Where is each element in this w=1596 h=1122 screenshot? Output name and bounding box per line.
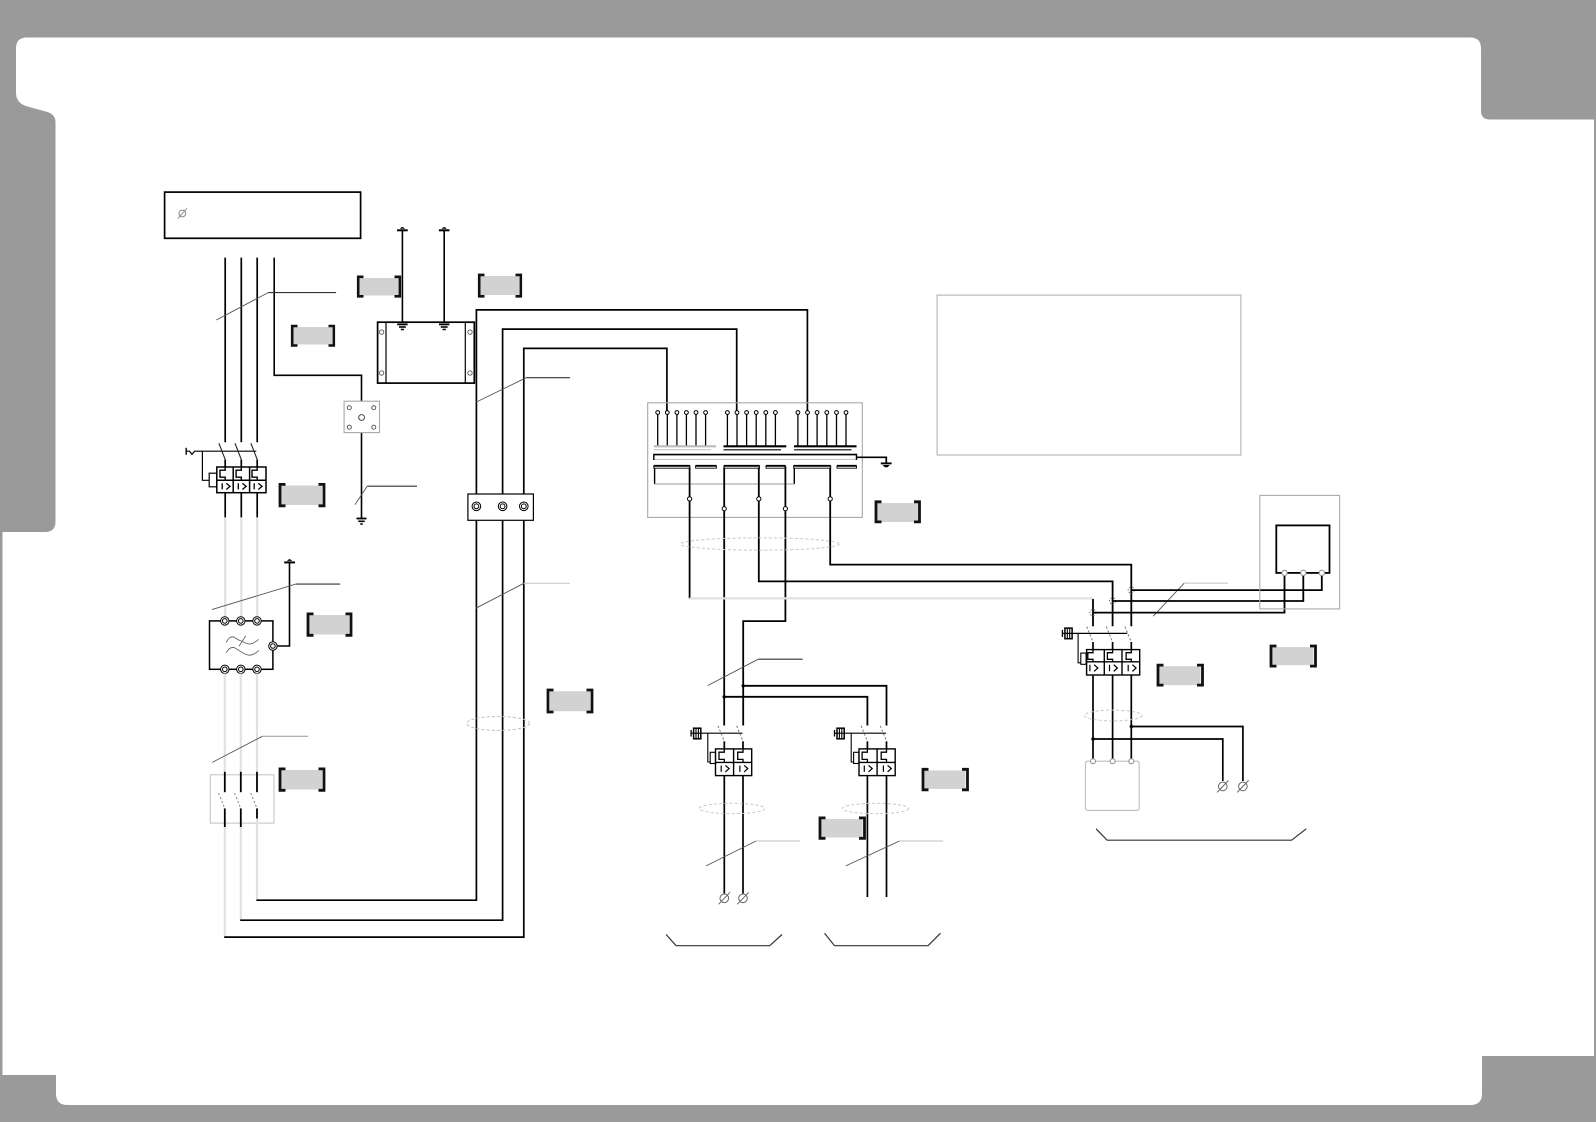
breaker B thermal — [862, 749, 886, 763]
staple joining rail — [655, 483, 795, 485]
PE stub wire 2 — [443, 231, 445, 322]
breaker A trip linkage — [708, 733, 716, 763]
connector output wire a — [689, 468, 691, 599]
filter earth wire — [277, 563, 289, 646]
wire to drive V — [1113, 576, 1304, 601]
open end symbol A1 — [719, 892, 730, 904]
bus bar group 1 — [654, 446, 716, 450]
aux wire right 1 — [1131, 727, 1243, 782]
connector output wire e — [830, 468, 1131, 627]
Q1 trip linkage — [202, 451, 216, 487]
breaker Q2 outputs — [1093, 675, 1131, 759]
open end symbol R1 — [1217, 780, 1228, 792]
connector output wire d — [743, 467, 785, 726]
label cable left — [548, 690, 592, 712]
leader cable right — [1153, 583, 1228, 616]
label connector — [876, 502, 920, 522]
junction ferrite 3 — [1128, 587, 1134, 593]
lower bar staples — [655, 468, 795, 484]
wire L3 drop — [256, 258, 258, 443]
leader to filter — [212, 584, 340, 610]
K1 contact pole 2 — [235, 772, 241, 827]
cable ellipse Q2 — [1084, 710, 1142, 721]
Q1 thermal elements — [220, 467, 257, 480]
wire L2 drop — [240, 258, 242, 443]
breaker A stubs — [724, 741, 743, 749]
breaker A thermal — [719, 749, 743, 763]
filter terminals bottom — [221, 665, 262, 673]
branch dot A2 — [742, 684, 745, 687]
breaker Q2 blades — [1087, 627, 1132, 642]
label filter — [308, 614, 351, 635]
label Q1 — [280, 484, 324, 505]
breaker Q2 stubs — [1093, 642, 1131, 650]
breaker A handle — [691, 728, 742, 739]
diameter symbol — [178, 208, 187, 218]
wire to drive W — [1131, 576, 1322, 591]
fan motor terminals — [1091, 759, 1134, 764]
leader A — [706, 841, 800, 866]
breaker B trip linkage — [851, 733, 859, 763]
connector pins group 1 — [656, 411, 708, 446]
leader B — [846, 841, 943, 866]
breaker B handle — [835, 728, 887, 739]
lower contact bars — [654, 465, 857, 468]
wire L1 drop — [224, 258, 226, 443]
chassis cap 1 — [397, 227, 408, 230]
K1 contact pole 3 — [251, 772, 257, 819]
branch wire to B pole2 — [743, 686, 886, 726]
drive unit body — [1276, 525, 1329, 573]
Q1 pole blades — [219, 443, 257, 459]
wire PE drop — [274, 258, 361, 518]
breaker Q2 I> — [1090, 665, 1136, 672]
PSU earth symbol 1 — [397, 324, 407, 329]
breaker Q2 trip linkage — [1078, 633, 1086, 664]
bus bar group 2 — [724, 446, 787, 450]
label PE stub 1 — [358, 277, 400, 297]
PE bus rail — [654, 454, 857, 460]
label right of B — [923, 769, 968, 790]
label PE stub 2 — [479, 275, 521, 296]
branch dot A1 — [723, 695, 726, 698]
branch dot Q2 pole1 — [1091, 737, 1094, 740]
contactor K1 box — [210, 775, 274, 823]
main switch handle Q1 — [186, 448, 256, 455]
motor cable run 1 — [224, 348, 667, 937]
filter terminal right — [269, 642, 277, 650]
connector output wire c — [759, 468, 1113, 627]
PSU earth symbol 2 — [439, 324, 449, 329]
filter terminals top — [221, 617, 262, 625]
filter wave icon — [226, 636, 259, 655]
empty note box — [937, 295, 1241, 455]
label K1 — [280, 769, 324, 790]
Q1 output stubs — [225, 493, 257, 518]
label Q2 — [1158, 665, 1203, 685]
branch dot Q2 pole3 — [1130, 725, 1133, 728]
breaker A outputs — [724, 776, 743, 894]
breaker B outputs — [867, 776, 886, 897]
breaker B blades — [861, 726, 886, 742]
black drop L1 at Q2 — [1092, 599, 1094, 626]
breaker B stubs — [867, 741, 886, 749]
cable ellipse B — [843, 803, 909, 813]
label near B feed — [820, 818, 865, 838]
leader to PE wire — [355, 486, 417, 504]
connector block outline — [648, 403, 863, 518]
PSU box — [378, 322, 475, 383]
leader PSU wires — [475, 378, 570, 403]
gray run L1 to Q2 — [690, 597, 1093, 599]
earth ground PE — [357, 519, 367, 525]
cable ellipse A — [699, 803, 764, 813]
drive terminals — [1282, 570, 1325, 575]
Q1 breaker block — [217, 467, 266, 493]
motor cable run 3 — [256, 310, 807, 900]
leader A feed — [708, 659, 803, 685]
open end symbol A2 — [737, 892, 748, 904]
label mains — [292, 326, 334, 346]
Q1 pole stubs — [225, 460, 257, 467]
PE rail earth exit — [857, 457, 892, 467]
connector pins group 3 — [796, 411, 848, 446]
cable marker ellipse left — [467, 716, 530, 730]
connector output wire b — [723, 468, 725, 726]
wire to drive U — [1093, 576, 1285, 613]
underbrace right — [1096, 829, 1306, 840]
drive unit outline — [1260, 495, 1340, 609]
open end symbol R2 — [1237, 780, 1248, 792]
gray wires Q1 to filter — [225, 517, 257, 616]
gray wires filter to contactor — [225, 674, 257, 773]
PE distribution block — [344, 401, 379, 432]
incoming mains box — [165, 192, 361, 238]
connector output terminals — [688, 497, 833, 511]
leader to mains wires — [216, 293, 336, 320]
bus bar group 3 — [794, 446, 857, 450]
underbrace B — [825, 933, 941, 946]
breaker Q2 block — [1087, 650, 1140, 675]
terminal strip X — [468, 494, 534, 520]
underbrace A — [666, 935, 782, 946]
Q1 overcurrent trips I> — [222, 483, 262, 489]
breaker A blades — [718, 726, 743, 742]
chassis cap filter — [284, 559, 295, 562]
breaker B I> — [864, 765, 891, 772]
EMC filter box — [210, 621, 273, 669]
label right area — [1271, 646, 1316, 666]
breaker A block — [716, 749, 752, 776]
connector pins group 2 — [726, 411, 778, 446]
branch wire to B pole1 — [724, 697, 867, 726]
aux wire right 2 — [1093, 739, 1223, 781]
leader to K1 — [212, 736, 308, 762]
junction ferrite 2 — [1110, 598, 1116, 604]
chassis cap 2 — [439, 227, 450, 230]
PE stub wire 1 — [401, 231, 403, 322]
motor cable run 2 — [240, 329, 737, 920]
breaker B block — [859, 749, 895, 776]
K1 contact pole 1 — [219, 772, 225, 827]
junction ferrite 1 — [1090, 610, 1096, 616]
cable ellipse under connector — [681, 538, 840, 550]
breaker A I> — [721, 765, 748, 772]
breaker Q2 handle — [1062, 628, 1127, 639]
fan motor box — [1086, 761, 1140, 810]
breaker Q2 thermal — [1088, 650, 1132, 662]
gray wires K1 to bends — [225, 819, 257, 937]
leader cable left — [476, 583, 570, 608]
